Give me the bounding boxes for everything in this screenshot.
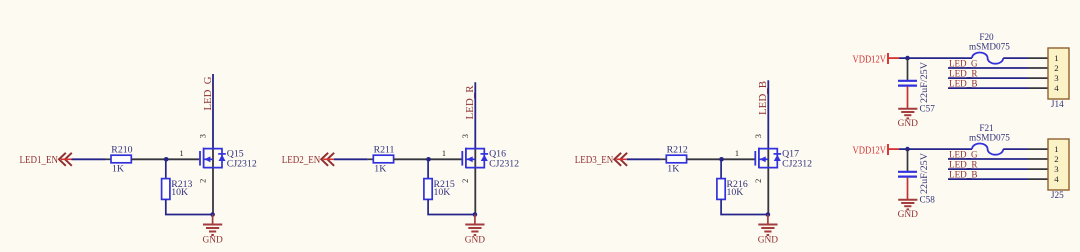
svg-text:3: 3 [1054,73,1059,83]
wire to pulldown [720,159,722,179]
svg-text:LED_R: LED_R [949,159,978,169]
wire to pulldown [165,159,167,179]
svg-text:GND: GND [202,236,223,246]
svg-text:LED_G: LED_G [949,149,978,159]
svg-text:mSMD075: mSMD075 [969,132,1010,142]
transistor Q17 body outline [759,149,777,168]
svg-text:1: 1 [442,149,446,158]
connector J14 [1048,48,1069,99]
wire (pin) [106,158,112,160]
transistor Q15 arrow [204,156,210,162]
svg-text:1K: 1K [112,164,124,175]
svg-text:2: 2 [199,179,208,183]
svg-text:22uF/25V: 22uF/25V [920,153,930,194]
connector J25 [1048,139,1069,190]
svg-text:GND: GND [898,210,919,220]
wire cap to ground [907,178,909,199]
svg-text:F20: F20 [979,32,994,42]
port arrow LED1_EN [59,153,72,166]
svg-text:1K: 1K [374,164,386,175]
svg-text:R210: R210 [111,145,132,156]
wire LED_G [948,158,1028,160]
node source junction [766,212,771,217]
svg-text:LED_B: LED_B [949,78,978,88]
svg-text:3: 3 [461,134,470,138]
svg-text:3: 3 [199,134,208,138]
port arrow LED3_EN [614,153,627,166]
wire [72,158,106,160]
wire drain [767,80,769,148]
svg-text:2: 2 [754,179,763,183]
node junction [905,147,910,152]
ground [898,199,917,201]
wire [334,158,368,160]
wire gate [131,158,199,160]
wire LED_B [948,178,1028,180]
wire pulldown to source [166,199,213,214]
svg-text:2: 2 [1054,63,1058,73]
svg-text:LED2_EN: LED2_EN [282,154,321,166]
wire cap to ground [907,87,909,108]
wire gate [394,158,462,160]
transistor Q16 body diode [481,153,489,155]
wire gate [687,158,755,160]
svg-text:1K: 1K [667,164,679,175]
svg-text:F21: F21 [979,123,994,133]
wire fuse to connector [1003,57,1028,59]
transistor Q15 gate bar [199,151,201,166]
svg-text:3: 3 [1054,164,1059,174]
svg-text:LED_R: LED_R [949,68,978,78]
resistor R215 [424,179,432,200]
wire source [474,149,476,215]
wire fuse to connector [1003,148,1028,150]
fuse F21 [972,144,1003,155]
svg-text:J14: J14 [1051,99,1064,109]
wire source [767,149,769,215]
svg-text:GND: GND [465,236,486,246]
svg-text:CJ2312: CJ2312 [227,159,257,170]
transistor Q17 substrate stub [759,158,768,160]
transistor Q15 body outline [204,149,222,168]
svg-text:GND: GND [758,236,779,246]
transistor Q15 channel bar [203,148,205,169]
svg-text:CJ2312: CJ2312 [782,159,812,170]
wire to pulldown [427,159,429,179]
wire [899,148,972,150]
svg-text:R212: R212 [667,145,688,156]
transistor Q16 arrow [467,156,473,162]
wire pulldown to source [721,199,768,214]
node junction [905,56,910,61]
svg-text:LED_R: LED_R [465,85,476,120]
svg-text:LED_G: LED_G [203,76,214,110]
svg-text:LED_B: LED_B [949,169,978,179]
ground [212,215,214,224]
svg-text:LED_B: LED_B [758,81,769,115]
svg-text:10K: 10K [727,187,744,198]
capacitor C57 [907,58,909,80]
transistor Q16 channel bar [465,148,467,169]
wire LED_R [948,77,1028,79]
svg-text:C57: C57 [920,104,936,114]
node source junction [473,212,478,217]
svg-text:C58: C58 [920,195,936,205]
resistor R211 [373,155,393,163]
fuse F20 [972,53,1003,64]
node junction [426,157,431,162]
wire [899,57,972,59]
transistor Q17 arrow [760,156,766,162]
port arrow LED2_EN [321,153,334,166]
svg-text:R211: R211 [374,145,395,156]
svg-text:10K: 10K [171,187,188,198]
transistor Q16 body outline [466,149,484,168]
svg-text:2: 2 [1054,154,1058,164]
ground [898,108,917,110]
resistor R213 [162,179,170,200]
svg-text:1: 1 [1054,144,1058,154]
node junction [719,157,724,162]
node junction [164,157,169,162]
svg-text:22uF/25V: 22uF/25V [920,62,930,103]
svg-text:2: 2 [461,179,470,183]
wire (pin) [368,158,374,160]
wire source [212,149,214,215]
wire LED_R [948,168,1028,170]
transistor Q16 gate bar [461,151,463,166]
transistor Q15 substrate stub [204,158,213,160]
wire (pin) [661,158,667,160]
svg-text:LED1_EN: LED1_EN [20,154,59,166]
svg-text:4: 4 [1054,174,1059,184]
svg-text:LED3_EN: LED3_EN [575,154,614,166]
svg-text:J25: J25 [1051,190,1064,200]
capacitor C58 [907,149,909,171]
node source junction [210,212,215,217]
wire LED_G [948,67,1028,69]
svg-text:mSMD075: mSMD075 [969,41,1010,51]
transistor Q17 body diode [774,153,782,155]
svg-text:VDD12V: VDD12V [853,55,887,66]
wire [627,158,661,160]
svg-text:3: 3 [754,134,763,138]
ground [767,215,769,224]
svg-text:1: 1 [1054,53,1058,63]
resistor R216 [717,179,725,200]
svg-text:VDD12V: VDD12V [853,146,887,157]
svg-text:4: 4 [1054,83,1059,93]
svg-text:1: 1 [180,149,184,158]
wire drain [474,82,476,148]
wire LED_B [948,87,1028,89]
wire pulldown to source [428,199,475,214]
transistor Q17 channel bar [758,148,760,169]
transistor Q16 substrate stub [466,158,475,160]
svg-text:10K: 10K [434,187,451,198]
svg-text:CJ2312: CJ2312 [489,159,519,170]
ground [474,215,476,224]
transistor Q15 body diode [218,153,226,155]
transistor Q17 gate bar [754,151,756,166]
svg-text:1: 1 [735,149,739,158]
svg-text:LED_G: LED_G [949,58,978,68]
resistor R212 [666,155,686,163]
wire drain [212,74,214,149]
resistor R210 [111,155,131,163]
svg-text:GND: GND [898,119,919,129]
